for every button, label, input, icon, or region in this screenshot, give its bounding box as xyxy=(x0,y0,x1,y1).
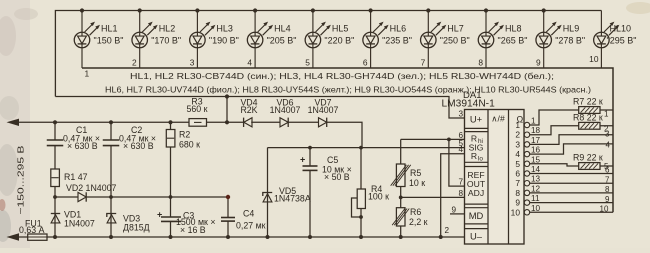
svg-text:0,27 мк: 0,27 мк xyxy=(236,221,266,231)
svg-text:"250 В": "250 В" xyxy=(440,36,470,46)
svg-text:HL4: HL4 xyxy=(274,24,291,34)
IC output pin numbers xyxy=(531,117,541,213)
svg-text:× 630 В: × 630 В xyxy=(67,141,98,151)
capacitor C5 10мк 50В xyxy=(300,148,352,237)
svg-text:8: 8 xyxy=(478,58,483,68)
arrow: AC input top xyxy=(7,119,20,126)
svg-text:∧/#: ∧/# xyxy=(491,114,505,124)
svg-text:10: 10 xyxy=(589,54,599,64)
svg-text:18: 18 xyxy=(531,126,541,135)
svg-text:680 к: 680 к xyxy=(179,140,200,150)
trimmer R4 100k xyxy=(352,148,390,237)
svg-text:9: 9 xyxy=(536,58,541,68)
svg-text:6: 6 xyxy=(363,58,368,68)
resistor R6 2,2k xyxy=(392,207,428,227)
LED HL8 xyxy=(478,11,527,69)
svg-text:"205 В": "205 В" xyxy=(267,36,297,46)
resistor R1 47 xyxy=(51,169,88,187)
svg-text:"150 В": "150 В" xyxy=(94,36,124,46)
svg-text:R1 47: R1 47 xyxy=(64,172,88,182)
svg-text:R9 22 к: R9 22 к xyxy=(573,153,603,163)
svg-text:8: 8 xyxy=(605,185,610,194)
svg-text:HL10: HL10 xyxy=(610,24,632,34)
svg-text:~150...295 В: ~150...295 В xyxy=(16,145,26,214)
svg-text:R8 22 к: R8 22 к xyxy=(573,112,603,122)
pin numbers left side xyxy=(444,110,463,236)
wire: REF pin7 tie to Rhi xyxy=(449,139,465,186)
svg-text:6: 6 xyxy=(515,169,520,179)
wire: ADJ pin8 line xyxy=(401,196,465,198)
svg-text:MD: MD xyxy=(469,210,484,221)
svg-text:12: 12 xyxy=(531,184,541,193)
LED HL9 xyxy=(536,11,585,69)
diode VD4 R2K xyxy=(240,98,257,128)
svg-text:R2: R2 xyxy=(179,130,190,140)
svg-text:× 16 В: × 16 В xyxy=(180,225,206,235)
wire: cathode number bus xyxy=(82,68,613,212)
svg-text:10: 10 xyxy=(531,204,541,213)
svg-text:1N4007: 1N4007 xyxy=(308,105,339,115)
diode VD2 1N4007 xyxy=(66,183,116,202)
svg-text:R6: R6 xyxy=(410,207,421,217)
resistor R5 10k xyxy=(391,139,426,188)
svg-text:HL2: HL2 xyxy=(159,24,176,34)
svg-text:7: 7 xyxy=(515,178,520,188)
wire: bottom ground rail xyxy=(47,236,465,238)
zener VD3 Д815Д xyxy=(107,197,150,237)
svg-text:9: 9 xyxy=(605,195,610,204)
svg-text:+: + xyxy=(157,210,162,220)
svg-text:9: 9 xyxy=(515,198,520,208)
svg-text:7: 7 xyxy=(421,58,426,68)
resistor R2 680k xyxy=(166,122,200,149)
svg-text:1: 1 xyxy=(604,110,609,119)
svg-text:1: 1 xyxy=(85,69,90,79)
zener VD5 1N4738A xyxy=(263,148,311,237)
svg-text:17: 17 xyxy=(531,136,541,145)
svg-text:U–: U– xyxy=(470,231,483,242)
wire: Rlo pin4 to ground xyxy=(441,154,465,237)
svg-text:R2K: R2K xyxy=(240,105,257,115)
wire: AC input top line with R3/VD4/VD6/VD7 chain xyxy=(16,121,189,123)
resistor R9 22k xyxy=(573,153,603,170)
svg-text:"278 В": "278 В" xyxy=(555,36,585,46)
op-amp IC DA1 LM3914N-1 box xyxy=(442,90,525,244)
wire: U+ supply rail (pin 3 feed) xyxy=(55,97,464,119)
node numbers 1-10 under LEDs xyxy=(85,54,599,79)
svg-text:3: 3 xyxy=(190,58,195,68)
svg-text:"190 В": "190 В" xyxy=(209,36,239,46)
svg-text:1N4007: 1N4007 xyxy=(270,105,301,115)
svg-text:2: 2 xyxy=(444,226,449,235)
svg-text:"295 В": "295 В" xyxy=(607,36,637,46)
svg-text:HL9: HL9 xyxy=(563,24,580,34)
IC output numbers column xyxy=(511,120,521,217)
svg-text:3: 3 xyxy=(458,110,463,119)
wire: riser to diode chain xyxy=(226,97,228,123)
svg-text:HL8: HL8 xyxy=(505,24,522,34)
svg-text:C4: C4 xyxy=(243,209,254,219)
svg-text:HL1: HL1 xyxy=(101,24,118,34)
junction dots on top rail xyxy=(80,8,546,12)
bus tap numbers right xyxy=(600,110,611,214)
svg-text:C5: C5 xyxy=(327,155,338,165)
svg-text:2,2 к: 2,2 к xyxy=(409,217,428,227)
svg-text:5: 5 xyxy=(515,159,520,169)
svg-text:6: 6 xyxy=(605,166,610,175)
capacitor C3 1500мк 16В xyxy=(157,197,216,237)
svg-text:1N4007: 1N4007 xyxy=(64,219,95,229)
LED HL1 xyxy=(74,11,123,69)
svg-text:4: 4 xyxy=(606,140,611,149)
svg-text:"220 В": "220 В" xyxy=(324,36,354,46)
svg-text:0,63 А: 0,63 А xyxy=(19,225,45,235)
svg-text:HL7: HL7 xyxy=(447,24,464,34)
svg-text:10 к: 10 к xyxy=(409,178,425,188)
LED HL2 xyxy=(132,11,181,69)
svg-text:9: 9 xyxy=(451,205,456,214)
svg-text:2: 2 xyxy=(515,130,520,140)
svg-text:HL6: HL6 xyxy=(390,24,407,34)
capacitor C2 0.47мк 630В xyxy=(103,122,156,197)
svg-text:14: 14 xyxy=(531,165,541,174)
svg-text:1N4738A: 1N4738A xyxy=(274,194,311,204)
svg-text:8: 8 xyxy=(458,189,463,198)
LED HL3 xyxy=(190,11,239,69)
svg-text:100 к: 100 к xyxy=(368,192,389,202)
LED HL5 xyxy=(305,11,354,69)
svg-text:"170 В": "170 В" xyxy=(151,36,181,46)
svg-text:1: 1 xyxy=(515,120,520,130)
svg-text:HL5: HL5 xyxy=(332,24,349,34)
resistor R8 22k xyxy=(573,112,603,129)
wire: Rhi pin6 line xyxy=(401,138,465,140)
svg-text:7: 7 xyxy=(605,175,610,184)
IC output inversion circles xyxy=(524,122,529,215)
resistor R7 22k xyxy=(573,97,603,114)
svg-text:ADJ: ADJ xyxy=(468,188,484,198)
LED HL7 xyxy=(421,11,470,69)
LED HL6 xyxy=(363,11,412,69)
diode VD6 1N4007 xyxy=(270,98,301,128)
svg-text:10: 10 xyxy=(600,205,609,214)
svg-text:"265 В": "265 В" xyxy=(498,36,528,46)
svg-text:× 50 В: × 50 В xyxy=(324,172,350,182)
svg-text:2: 2 xyxy=(132,58,137,68)
svg-text:VD2 1N4007: VD2 1N4007 xyxy=(66,183,116,193)
svg-text:"235 В": "235 В" xyxy=(382,36,412,46)
svg-text:3: 3 xyxy=(515,139,520,149)
svg-text:HL6, HL7 RL30-UV744D (фиол.);: HL6, HL7 RL30-UV744D (фиол.); HL8 RL30-U… xyxy=(105,85,591,95)
svg-text:HL1, HL2 RL30-CB744D (син.);: HL1, HL2 RL30-CB744D (син.); HL3, HL4 RL… xyxy=(130,71,554,81)
svg-text:5: 5 xyxy=(305,58,310,68)
svg-text:R: R xyxy=(471,151,477,161)
svg-text:LM3914N-1: LM3914N-1 xyxy=(442,98,496,109)
svg-text:560 к: 560 к xyxy=(187,104,208,114)
resistor R3 560k xyxy=(187,96,208,126)
arrow: AC input bottom xyxy=(7,233,20,240)
svg-text:lo: lo xyxy=(478,155,483,162)
svg-text:Д815Д: Д815Д xyxy=(123,223,150,233)
svg-text:+: + xyxy=(300,155,305,165)
svg-text:4: 4 xyxy=(247,58,252,68)
wire: LED anode top rail xyxy=(55,11,601,97)
wire: SIG line (pin 5) xyxy=(268,147,465,149)
svg-text:13: 13 xyxy=(531,175,541,184)
svg-text:4: 4 xyxy=(515,149,520,159)
svg-text:11: 11 xyxy=(531,194,540,203)
svg-text:1: 1 xyxy=(531,117,536,126)
svg-text:R5: R5 xyxy=(410,168,421,178)
svg-text:8: 8 xyxy=(515,188,520,198)
wires: IC outputs to cathode bus xyxy=(530,110,613,125)
LED HL10 xyxy=(594,11,637,69)
svg-text:× 630 В: × 630 В xyxy=(123,141,154,151)
svg-text:15: 15 xyxy=(531,155,541,164)
capacitor C1 0.47мк 630В xyxy=(47,122,100,169)
svg-text:10: 10 xyxy=(511,207,521,217)
capacitor C4 0.27мк xyxy=(221,197,266,237)
wire: MD pin9 stub xyxy=(450,213,465,215)
svg-text:4: 4 xyxy=(458,145,463,154)
svg-text:3: 3 xyxy=(605,129,610,138)
svg-text:HL3: HL3 xyxy=(216,24,233,34)
fuse FU1 0,63 A xyxy=(16,219,47,241)
svg-text:U+: U+ xyxy=(470,114,483,125)
diode VD1 1N4007 xyxy=(51,197,95,237)
svg-text:R7 22 к: R7 22 к xyxy=(573,97,603,107)
LED HL4 xyxy=(247,11,296,69)
wire: rectified node line with VD2 xyxy=(55,196,78,198)
svg-text:7: 7 xyxy=(458,178,463,187)
diode VD7 1N4007 xyxy=(308,98,339,128)
svg-text:16: 16 xyxy=(531,146,541,155)
